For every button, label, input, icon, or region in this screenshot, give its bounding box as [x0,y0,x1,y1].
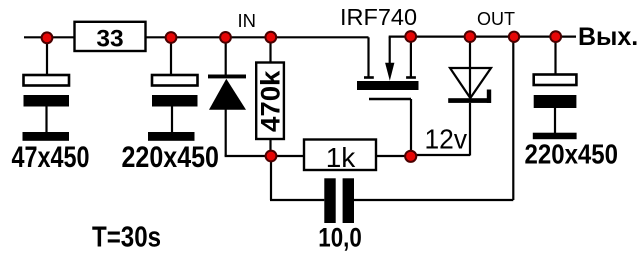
svg-text:1k: 1k [326,142,357,173]
resistor 1k [304,140,376,173]
wire 1k left lead [271,155,304,157]
wire zener to gate node [411,154,470,156]
junction node IN [220,32,231,43]
wire zener bottom lead [469,103,471,156]
ground bar cap1 [23,132,70,141]
svg-text:10,0: 10,0 [318,223,362,253]
svg-text:IRF740: IRF740 [340,4,417,30]
svg-text:47x450: 47x450 [12,141,90,174]
svg-text:IN: IN [238,10,257,31]
transistor Q1 body arrow [385,37,394,81]
svg-text:470k: 470k [255,70,285,132]
transistor Q1 drain lead [367,37,369,76]
wire cap2 top lead [170,37,172,75]
wire diode to node [225,155,271,157]
svg-text:33: 33 [96,26,123,53]
wire gate drop [410,99,412,156]
zener diode 12v [448,68,491,103]
transistor Q1 gate line [369,98,411,100]
wire bottom left [270,199,324,201]
capacitor 220x450 (right) [534,75,577,134]
wire cap1 top lead [46,37,48,75]
junction node 5 (source) [405,31,416,42]
transistor Q1 channel bar [357,81,419,90]
wire diode top lead [225,37,227,75]
svg-text:220x450: 220x450 [525,138,619,169]
junction node 2 [166,32,177,43]
wire 470k bottom lead [269,139,271,156]
wire 1k right lead [376,155,411,157]
wire diode bottom lead [225,110,227,157]
ground bar cap3 [533,133,577,140]
wire riser to output rail [512,37,514,200]
junction node 9 (gate net left) [266,151,277,162]
junction node 4 [265,32,276,43]
wire bottom right [354,199,513,201]
wire node to bottom [270,156,272,200]
svg-text:12v: 12v [425,124,468,155]
junction node 6 (zener) [465,31,476,42]
svg-text:OUT: OUT [477,9,515,29]
capacitor 47x450 [24,75,70,132]
svg-text:220x450: 220x450 [122,141,220,174]
diode D1 (protection, cathode up) [208,75,246,110]
junction node 10 (gate net right) [405,151,416,162]
capacitor 10,0 [324,178,354,223]
zener diode 12v top lead [469,37,471,98]
junction node 7 (riser) [509,32,519,42]
ground bar cap2 [148,132,195,141]
transistor Q1 source lead [410,37,412,77]
wire input rail [24,36,369,38]
svg-text:Вых.: Вых. [578,23,638,51]
wire cap3 top lead [554,37,556,75]
resistor 33 [75,22,146,53]
junction node 1 [42,32,53,43]
capacitor 220x450 (middle) [152,75,198,132]
transistor Q1 drain contact tick [364,76,374,79]
wire 470k top lead [269,37,271,62]
junction node 8 (output cap) [550,31,561,42]
svg-text:T=30s: T=30s [92,222,161,254]
transistor Q1 source contact tick [406,76,416,79]
wire output rail [389,35,576,37]
resistor 470k [255,63,285,140]
